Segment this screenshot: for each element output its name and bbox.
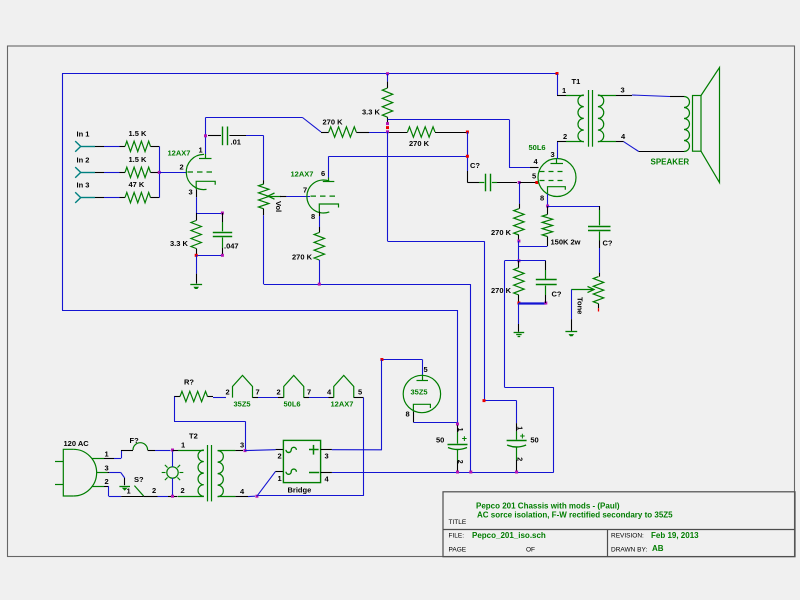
wire bridge pin1 diagonal bbox=[257, 471, 283, 496]
transistor 35Z5 plate bbox=[417, 365, 429, 381]
op-amp V1 12AX7 triode bbox=[168, 149, 207, 190]
wire B+ riser bbox=[381, 360, 383, 450]
svg-text:1: 1 bbox=[278, 474, 282, 483]
svg-text:1: 1 bbox=[199, 146, 203, 155]
wire .01 to Vol bbox=[246, 136, 264, 181]
resistor 150K 2w bbox=[542, 206, 580, 247]
wire V2 plate to coupling node bbox=[329, 156, 468, 158]
svg-text:3.3 K: 3.3 K bbox=[362, 108, 381, 117]
node B+ tap bbox=[386, 72, 389, 75]
svg-text:5: 5 bbox=[424, 365, 428, 374]
wire 35Z5 plate bbox=[382, 360, 423, 375]
svg-text:In 3: In 3 bbox=[77, 181, 90, 190]
wire In 1 to resistor bbox=[95, 146, 120, 148]
resistor 1.5 K (input 2) bbox=[120, 155, 160, 178]
resistor 270 K V2 cathode bbox=[292, 227, 325, 284]
svg-text:1: 1 bbox=[515, 426, 522, 430]
wire bottom rail y310 bbox=[62, 310, 458, 312]
wire fuse to T2 bbox=[155, 450, 171, 452]
wire cathode top link bbox=[196, 213, 222, 215]
wire G1 to tube bbox=[519, 182, 538, 184]
svg-text:7: 7 bbox=[303, 186, 307, 195]
svg-text:270 K: 270 K bbox=[409, 139, 430, 148]
node cap bypass bottom bbox=[544, 302, 547, 305]
svg-text:5: 5 bbox=[532, 172, 536, 181]
node cathode bottom bbox=[195, 254, 224, 257]
ground V1 cathode bbox=[190, 285, 202, 290]
wire speaker bottom bbox=[616, 132, 684, 152]
wire In 3 to resistor bbox=[95, 197, 120, 199]
capacitor 50uF first bbox=[436, 425, 468, 472]
resistor Vol potentiometer bbox=[259, 180, 284, 215]
node V1 plate junction bbox=[204, 134, 207, 137]
wire to V1 grid bbox=[159, 172, 187, 174]
wire plug pin2 bbox=[92, 477, 144, 497]
svg-text:3: 3 bbox=[240, 441, 244, 450]
transistor 12AX7 heater bbox=[327, 375, 362, 408]
svg-text:T2: T2 bbox=[189, 432, 198, 441]
connector In 3 bbox=[75, 181, 95, 203]
svg-text:2: 2 bbox=[226, 388, 230, 397]
svg-text:2: 2 bbox=[152, 486, 156, 495]
wire speaker top bbox=[616, 86, 684, 97]
op-amp V1 grid bbox=[180, 163, 217, 173]
switch S? bbox=[119, 475, 156, 496]
svg-text:Feb 19, 2013: Feb 19, 2013 bbox=[651, 531, 699, 540]
capacitor C? leak bypass bbox=[536, 261, 562, 303]
connector 120 AC plug bbox=[55, 439, 97, 496]
transistor 35Z5 heater bbox=[226, 375, 260, 408]
svg-text:1: 1 bbox=[127, 487, 131, 496]
op-amp V2 12AX7 triode bbox=[291, 170, 330, 214]
resistor 270 K grid leak lower bbox=[491, 261, 524, 303]
svg-text:Pepco 201 Chassis with mods -: Pepco 201 Chassis with mods - (Paul) bbox=[476, 502, 620, 511]
wire heater link2 bbox=[304, 397, 334, 399]
wire y240.8 to cap2 bbox=[388, 241, 485, 401]
transistor 50L6 screen grid bbox=[534, 157, 567, 172]
wire coupling node drop bbox=[467, 132, 469, 183]
wire R? left drop bbox=[174, 397, 246, 451]
node 3.3K bottom bbox=[386, 122, 389, 133]
fuse F? bbox=[121, 436, 155, 451]
wire bridge pin3 out bbox=[321, 449, 382, 451]
svg-text:In 1: In 1 bbox=[77, 129, 90, 138]
svg-text:DRAWN BY:: DRAWN BY: bbox=[611, 547, 647, 554]
svg-text:3: 3 bbox=[105, 464, 109, 473]
svg-text:2: 2 bbox=[105, 477, 109, 486]
transformer T2 bbox=[173, 432, 246, 502]
svg-text:Tone: Tone bbox=[576, 297, 585, 314]
svg-text:2: 2 bbox=[563, 132, 567, 141]
node leak mid bbox=[517, 240, 520, 243]
title block bbox=[443, 492, 795, 557]
resistor R? heater dropper bbox=[174, 378, 226, 402]
node input join bbox=[158, 171, 161, 174]
svg-text:AC sorce isolation, F-W rectif: AC sorce isolation, F-W rectified second… bbox=[477, 511, 673, 520]
svg-text:270 K: 270 K bbox=[292, 253, 313, 262]
wire B- bus bbox=[332, 472, 554, 474]
node T2 pin3 bbox=[244, 449, 247, 452]
node leak bottom bbox=[517, 302, 520, 305]
svg-text:50L6: 50L6 bbox=[284, 400, 301, 409]
transistor 50L6 beam tube bbox=[529, 143, 577, 197]
node bus cap2 bbox=[515, 471, 518, 474]
wire 50L6 plate to T1 bbox=[557, 142, 559, 159]
wire V1 cathode down bbox=[196, 189, 198, 213]
ground tone wiper bbox=[565, 332, 577, 337]
svg-text:8: 8 bbox=[540, 194, 544, 203]
wire switch to T2 bbox=[144, 496, 178, 498]
speaker SPEAKER bbox=[651, 68, 720, 183]
svg-text:2: 2 bbox=[180, 163, 184, 172]
resistor 270K V1 plate load bbox=[321, 118, 387, 138]
connector In 1 bbox=[75, 129, 95, 151]
resistor Tone potentiometer bbox=[571, 277, 603, 315]
node leak node 261 bbox=[517, 259, 520, 262]
svg-text:3: 3 bbox=[189, 188, 193, 197]
diode bridge rectifier bbox=[278, 440, 330, 494]
wire 50L6 cathode down bbox=[547, 194, 549, 206]
wire y260.8 bbox=[505, 260, 546, 262]
wire left rail bbox=[62, 74, 64, 311]
svg-text:3: 3 bbox=[621, 86, 625, 95]
svg-text:C?: C? bbox=[470, 161, 480, 170]
svg-text:In 2: In 2 bbox=[77, 155, 90, 164]
transistor 35Z5 rectifier bbox=[403, 375, 440, 412]
wire T1 pin1 lead bbox=[557, 74, 580, 96]
svg-text:Bridge: Bridge bbox=[288, 486, 312, 495]
transistor 50L6 heater bbox=[277, 375, 312, 408]
svg-text:270 K: 270 K bbox=[491, 286, 512, 295]
ground grid leak bbox=[514, 333, 525, 337]
wire V2 plate up bbox=[328, 156, 330, 177]
svg-text:PAGE: PAGE bbox=[449, 547, 467, 554]
svg-text:47 K: 47 K bbox=[129, 180, 145, 189]
op-amp V2 grid bbox=[303, 186, 339, 197]
wire cathode bottom link bbox=[196, 255, 222, 257]
node T2 pin2 bbox=[171, 495, 174, 498]
wire V1 plate up-right bbox=[206, 118, 322, 133]
svg-text:Vol: Vol bbox=[274, 201, 283, 212]
svg-text:2: 2 bbox=[456, 460, 463, 464]
svg-text:8: 8 bbox=[406, 410, 410, 419]
wire cathode bus drop bbox=[470, 284, 472, 472]
svg-text:Pepco_201_iso.sch: Pepco_201_iso.sch bbox=[472, 531, 546, 540]
svg-text:35Z5: 35Z5 bbox=[234, 400, 251, 409]
wire V2 cathode down bbox=[319, 212, 321, 228]
svg-text:50L6: 50L6 bbox=[529, 143, 546, 152]
svg-text:+: + bbox=[462, 433, 467, 443]
node bus cathode-wire bbox=[469, 471, 472, 474]
wire 50L6 cathode right bbox=[548, 206, 600, 208]
wire input join vertical bbox=[159, 146, 161, 197]
wire heater return bbox=[257, 398, 364, 496]
svg-text:2: 2 bbox=[515, 457, 522, 461]
svg-text:5: 5 bbox=[358, 388, 362, 397]
node cathode top link bbox=[221, 212, 224, 215]
svg-text:T1: T1 bbox=[572, 77, 581, 86]
svg-text:7: 7 bbox=[256, 388, 260, 397]
svg-text:REVISION:: REVISION: bbox=[611, 533, 644, 540]
wire bus riser right bbox=[505, 387, 554, 472]
svg-text:SPEAKER: SPEAKER bbox=[651, 158, 690, 167]
wire Vol bottom to bus bbox=[263, 215, 265, 284]
svg-text:270 K: 270 K bbox=[491, 228, 512, 237]
wire plug pin3 bbox=[97, 464, 125, 486]
svg-text:12AX7: 12AX7 bbox=[331, 400, 354, 409]
wire leak mid drop bbox=[518, 241, 520, 261]
node 50L6 cathode bbox=[546, 205, 549, 208]
wire lamp vertical bbox=[172, 450, 174, 496]
wire In 2 to resistor bbox=[95, 172, 120, 174]
node 35Z5 cathode node bbox=[456, 423, 459, 426]
wire T2 pin3 lead bbox=[235, 450, 243, 452]
svg-text:2: 2 bbox=[277, 388, 281, 397]
capacitor C? coupling 50L6 bbox=[467, 161, 517, 191]
transistor 50L6 plate bbox=[551, 150, 564, 164]
node coupling mid bbox=[466, 155, 469, 158]
wire tone wiper ground bbox=[571, 290, 573, 331]
transistor 50L6 cathode bbox=[540, 187, 565, 203]
op-amp V1 cathode bbox=[189, 181, 216, 196]
node T2 pin4 bbox=[255, 495, 258, 498]
svg-text:3: 3 bbox=[325, 452, 329, 461]
svg-text:S?: S? bbox=[134, 475, 144, 484]
wire V1 plate lead bbox=[205, 118, 207, 155]
node 35Z5 plate node bbox=[380, 358, 383, 361]
svg-text:12AX7: 12AX7 bbox=[168, 149, 191, 158]
wire Vol wiper to V2 grid bbox=[280, 196, 310, 198]
svg-text:1: 1 bbox=[105, 450, 109, 459]
transistor 50L6 control grid bbox=[532, 172, 567, 181]
op-amp V1 plate bbox=[199, 146, 212, 159]
svg-text:FILE:: FILE: bbox=[449, 533, 465, 540]
capacitor .047 V1 bypass bbox=[213, 213, 239, 255]
svg-text:8: 8 bbox=[311, 212, 315, 221]
wire leak ground drop bbox=[518, 303, 520, 332]
svg-text:AB: AB bbox=[652, 544, 664, 553]
wire screen feed bbox=[388, 119, 539, 167]
svg-text:6: 6 bbox=[321, 169, 325, 178]
wire cap to tone bbox=[599, 248, 601, 277]
svg-text:C?: C? bbox=[552, 290, 562, 299]
node T2 pin1 bbox=[171, 449, 174, 452]
transistor 35Z5 cathode bbox=[406, 404, 431, 418]
node B+ T1 bbox=[556, 72, 559, 75]
svg-text:TITLE: TITLE bbox=[449, 519, 467, 526]
svg-text:OF: OF bbox=[526, 547, 535, 554]
svg-text:150K 2w: 150K 2w bbox=[551, 238, 581, 247]
resistor 270 K grid leak upper bbox=[491, 209, 524, 241]
svg-text:1: 1 bbox=[181, 441, 185, 450]
svg-text:2: 2 bbox=[278, 452, 282, 461]
svg-text:50: 50 bbox=[530, 435, 538, 444]
wire top B+ rail bbox=[62, 73, 557, 75]
transformer T1 bbox=[566, 90, 616, 147]
svg-text:.047: .047 bbox=[224, 242, 239, 251]
svg-text:1.5 K: 1.5 K bbox=[129, 129, 148, 138]
wire node261 left drop bbox=[504, 261, 506, 388]
svg-text:120 AC: 120 AC bbox=[64, 439, 90, 448]
svg-text:50: 50 bbox=[436, 436, 444, 445]
svg-text:1.5 K: 1.5 K bbox=[129, 155, 148, 164]
wire 150K link y246 bbox=[519, 246, 548, 248]
svg-text:F?: F? bbox=[130, 436, 140, 445]
svg-text:C?: C? bbox=[603, 239, 613, 248]
resistor 3.3 K V1 cathode bbox=[170, 213, 201, 255]
node 270K right bbox=[466, 131, 469, 134]
wire leak bottom link bbox=[519, 302, 546, 304]
svg-text:R?: R? bbox=[184, 378, 194, 387]
svg-text:+: + bbox=[520, 431, 525, 441]
capacitor 50uF second bbox=[483, 399, 539, 472]
wire 35Z5 cathode bbox=[413, 412, 457, 423]
svg-text:2: 2 bbox=[181, 486, 185, 495]
wire cathode bus y284 bbox=[264, 284, 471, 286]
wire bridge pin4 out bbox=[321, 472, 332, 474]
op-amp V2 plate bbox=[321, 169, 334, 182]
wire to ground V1 bbox=[196, 255, 198, 283]
svg-text:3: 3 bbox=[551, 150, 555, 159]
capacitor .01 coupling bbox=[208, 127, 246, 147]
wire T2 sec to bridge2 bbox=[245, 450, 283, 451]
op-amp V2 cathode bbox=[311, 204, 339, 221]
svg-text:12AX7: 12AX7 bbox=[291, 170, 314, 179]
wire heater link1 bbox=[253, 397, 284, 399]
svg-text:3.3 K: 3.3 K bbox=[170, 239, 189, 248]
resistor 270 K V2 plate load bbox=[389, 127, 466, 148]
resistor 47 K (input 3) bbox=[120, 180, 160, 203]
svg-text:35Z5: 35Z5 bbox=[411, 388, 428, 397]
node G1 pin bbox=[535, 181, 538, 184]
wire plug pin1 bbox=[92, 450, 122, 459]
capacitor C? 50L6 cathode bbox=[588, 206, 613, 248]
svg-text:7: 7 bbox=[307, 388, 311, 397]
wire T1 pin2 lead bbox=[557, 132, 567, 142]
wire G1 drop bbox=[519, 183, 521, 209]
lamp pilot bbox=[162, 465, 184, 480]
node G1 junction bbox=[518, 181, 521, 184]
resistor 3.3 K B+ dropper bbox=[362, 74, 393, 124]
svg-text:1: 1 bbox=[456, 428, 463, 432]
wire rail drop x457.5 bbox=[457, 310, 459, 425]
svg-text:270 K: 270 K bbox=[323, 118, 344, 127]
wire B+ drop x387.5 bbox=[387, 132, 389, 241]
wire T2 pin4 lead bbox=[235, 495, 255, 497]
connector In 2 bbox=[75, 155, 95, 177]
svg-text:.01: .01 bbox=[231, 138, 241, 147]
node V2 cathode bus bbox=[318, 283, 321, 286]
node bus cap1 bbox=[456, 471, 459, 474]
svg-text:1: 1 bbox=[562, 86, 566, 95]
resistor 1.5 K (input 1) bbox=[120, 129, 160, 152]
